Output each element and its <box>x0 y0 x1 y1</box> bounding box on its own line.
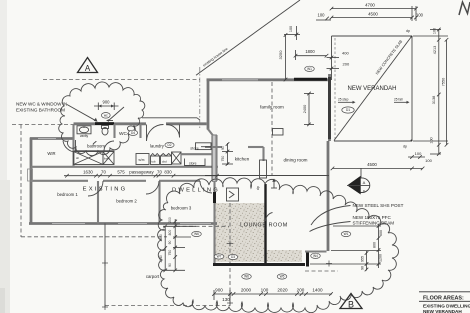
dash-dot old wall line vertical <box>199 67 201 128</box>
dim 900 bathroom <box>94 105 119 107</box>
bedroom3 door arc <box>146 181 159 194</box>
family/dining divider <box>205 146 222 148</box>
bedroom2 door arc <box>88 181 103 196</box>
svg-text:1630: 1630 <box>83 169 93 174</box>
svg-text:W7: W7 <box>217 255 222 259</box>
scan edge artifacts <box>0 0 7 313</box>
bed3 chain inner <box>174 219 176 271</box>
svg-text:6: 6 <box>363 190 365 194</box>
dim 4500 top <box>331 17 412 19</box>
bay north wall <box>305 250 327 252</box>
dim 4700 <box>331 8 416 10</box>
svg-text:family room: family room <box>260 105 284 110</box>
svg-text:4213: 4213 <box>433 46 437 54</box>
svg-text:NEW VERANDAH: NEW VERANDAH <box>347 86 396 92</box>
wc east wall <box>139 124 141 138</box>
east wall upper <box>328 74 331 141</box>
svg-text:100: 100 <box>318 13 326 18</box>
passage south wall <box>31 180 88 182</box>
svg-text:400: 400 <box>342 51 349 56</box>
bottom dim chain <box>214 293 332 295</box>
revision cloud large <box>158 178 399 313</box>
D3 tag <box>228 254 238 259</box>
svg-text:200: 200 <box>168 217 172 223</box>
svg-text:WIR: WIR <box>47 151 55 156</box>
svg-text:EXISTING BATHROOM: EXISTING BATHROOM <box>16 108 65 113</box>
W7 tag <box>214 254 224 259</box>
dashed eave line north <box>43 79 200 81</box>
dashed carport east line <box>229 203 231 305</box>
section marker A/6 <box>360 168 362 177</box>
svg-text:W1: W1 <box>344 232 349 236</box>
svg-text:D1: D1 <box>346 108 350 112</box>
vanity <box>77 126 91 134</box>
step arrow dining <box>273 180 275 189</box>
west wing north wall <box>30 137 74 140</box>
svg-text:70: 70 <box>101 169 106 174</box>
verandah top edge <box>332 35 413 37</box>
bay window bar <box>306 253 309 267</box>
verandah bottom edge <box>334 140 412 142</box>
old wall line horizontal <box>142 117 197 119</box>
wm box <box>136 154 149 165</box>
svg-text:4500: 4500 <box>368 12 378 17</box>
right dim extensions <box>413 35 448 37</box>
svg-text:bedroom 3: bedroom 3 <box>171 206 192 211</box>
D1 oval <box>342 107 354 113</box>
svg-text:90: 90 <box>221 146 225 150</box>
svg-text:laundry: laundry <box>150 144 165 149</box>
svg-text:25 step: 25 step <box>338 97 349 101</box>
svg-text:W5: W5 <box>280 275 285 279</box>
svg-text:W4: W4 <box>313 254 318 258</box>
wir pier bump <box>28 169 33 181</box>
kitchen counter <box>260 160 267 178</box>
cbd box <box>161 156 172 165</box>
svg-text:kitchen: kitchen <box>235 157 250 162</box>
lounge south wall bold <box>213 263 305 266</box>
store leader <box>201 146 211 148</box>
dashed eave stub nw <box>12 124 74 126</box>
svg-text:store: store <box>190 146 198 150</box>
passage dim chain <box>64 175 218 177</box>
svg-text:EXISTING: EXISTING <box>83 187 128 193</box>
svg-text:store: store <box>189 161 197 165</box>
triangle A marker <box>78 58 98 73</box>
east chain 955/90 <box>366 251 368 271</box>
bedroom2/3 wall <box>158 181 160 224</box>
store door arc <box>167 125 180 138</box>
svg-text:w/m: w/m <box>139 158 145 162</box>
triangle B marker <box>340 294 362 309</box>
W5 tag south <box>277 274 287 279</box>
svg-text:D2: D2 <box>167 143 171 147</box>
svg-text:A: A <box>85 64 91 73</box>
post cross se <box>326 263 332 265</box>
right dim outer 7550 <box>446 40 448 145</box>
W4 tag <box>311 253 321 258</box>
bathroom west wall <box>72 124 74 167</box>
verandah left dashed <box>334 38 336 139</box>
W1 oval <box>305 66 315 71</box>
verandah slab diagonal <box>334 37 412 141</box>
svg-text:2400: 2400 <box>303 105 307 113</box>
dashed ridge line family room <box>271 82 273 175</box>
svg-text:100: 100 <box>415 151 422 156</box>
svg-text:130: 130 <box>222 297 230 302</box>
svg-text:carport: carport <box>146 274 160 279</box>
laundry door arc <box>147 124 164 141</box>
svg-text:A: A <box>363 180 366 185</box>
north symbol <box>459 2 470 15</box>
svg-text:100: 100 <box>425 158 432 163</box>
svg-text:NEW WC & WINDOW IN: NEW WC & WINDOW IN <box>16 102 67 107</box>
family room hearth <box>273 129 284 136</box>
svg-text:FLOOR AREAS:: FLOOR AREAS: <box>423 296 464 302</box>
svg-text:1400: 1400 <box>312 288 323 293</box>
svg-text:4700: 4700 <box>365 3 375 8</box>
svg-text:100: 100 <box>289 26 293 32</box>
svg-text:D3: D3 <box>231 255 235 259</box>
dashed eave boundary south <box>21 236 167 238</box>
dim 1800 <box>296 55 327 57</box>
bathroom south wall <box>74 150 115 152</box>
svg-text:W6: W6 <box>194 232 199 236</box>
svg-text:600: 600 <box>379 230 383 236</box>
W6 tag south <box>242 274 252 279</box>
svg-text:bathroom: bathroom <box>87 144 105 149</box>
svg-text:1200: 1200 <box>379 254 383 262</box>
svg-text:sh: sh <box>76 156 80 160</box>
new wc window black bar <box>95 122 114 125</box>
svg-text:vanity: vanity <box>80 134 89 138</box>
wc oval tag <box>101 113 110 119</box>
svg-text:dp: dp <box>406 29 410 33</box>
svg-text:LOUNGE ROOM: LOUNGE ROOM <box>240 223 288 229</box>
svg-text:100: 100 <box>433 28 437 34</box>
wc pan 2 in wc room <box>127 126 134 131</box>
east wall dark opening bar <box>328 77 331 139</box>
W1 oval lounge <box>341 231 351 236</box>
svg-text:cbd: cbd <box>162 160 167 164</box>
bedrooms south wall <box>29 222 217 225</box>
bed3 chain extensions <box>163 225 196 227</box>
west wall <box>30 138 33 225</box>
W6 bed3 tag <box>192 231 202 236</box>
dashed carport beam line <box>176 225 229 227</box>
svg-text:W6: W6 <box>244 275 249 279</box>
east chain 600/800/1200 <box>378 224 380 268</box>
svg-text:200: 200 <box>297 288 305 293</box>
svg-text:800: 800 <box>373 242 377 248</box>
svg-text:B: B <box>348 300 354 310</box>
store box <box>185 159 206 166</box>
jog wall diagonal <box>208 129 214 136</box>
bathroom north wall <box>74 122 96 125</box>
svg-text:dining room: dining room <box>283 158 307 163</box>
family room west wall <box>207 81 210 130</box>
lounge north line <box>205 175 329 177</box>
svg-text:800: 800 <box>168 230 172 236</box>
svg-text:2000: 2000 <box>241 288 252 293</box>
svg-text:100: 100 <box>261 288 269 293</box>
svg-text:linen: linen <box>104 157 110 161</box>
kitchen counter2 <box>227 188 239 201</box>
dashed carport south line <box>105 305 230 307</box>
east wall lower <box>327 141 330 251</box>
lounge new east wall bold <box>264 184 266 263</box>
existing house line diagonal <box>196 0 300 75</box>
svg-text:NEW STEEL SHS POST: NEW STEEL SHS POST <box>353 203 404 208</box>
svg-text:tub: tub <box>152 160 156 164</box>
dim 4500 mid <box>333 167 423 169</box>
svg-text:wc: wc <box>104 114 108 118</box>
svg-text:bedroom 1: bedroom 1 <box>57 192 78 197</box>
new window black bar north <box>294 78 327 81</box>
dashed eave boundary west <box>20 125 22 238</box>
kitchen/dining divider <box>262 147 264 161</box>
carport west post line <box>104 224 106 308</box>
svg-text:900: 900 <box>103 100 111 105</box>
leader to window <box>67 105 96 121</box>
hw box <box>172 152 182 164</box>
east chain extensions <box>331 250 381 252</box>
svg-text:2020: 2020 <box>277 288 288 293</box>
passage north wall <box>31 166 218 168</box>
svg-text:830: 830 <box>164 169 172 174</box>
stipple strip south bay <box>265 250 302 262</box>
svg-text:955: 955 <box>361 256 365 262</box>
wc pan <box>102 126 109 129</box>
svg-text:3250: 3250 <box>278 50 283 60</box>
dim 100 small <box>284 34 300 36</box>
wir door arc <box>63 140 76 152</box>
dim 100 below dp <box>408 156 425 158</box>
svg-text:900: 900 <box>215 288 223 293</box>
bathroom door arc <box>104 141 114 151</box>
svg-text:1800: 1800 <box>305 49 315 54</box>
svg-text:D4: D4 <box>131 131 135 135</box>
svg-text:4500: 4500 <box>367 162 377 167</box>
svg-text:passageway: passageway <box>129 169 154 174</box>
bath box <box>74 152 104 165</box>
tub box <box>151 156 160 165</box>
svg-text:90: 90 <box>168 241 172 245</box>
svg-text:90: 90 <box>361 266 365 270</box>
store divider wall <box>181 153 212 155</box>
bedroom1/2 wall <box>97 181 99 224</box>
kitchen small dims <box>227 143 229 165</box>
svg-text:3138: 3138 <box>432 96 436 104</box>
verandah ne connector <box>331 36 333 80</box>
svg-text:NEW VERANDAH: NEW VERANDAH <box>423 309 462 313</box>
new slab stipple lounge <box>214 203 266 262</box>
svg-text:EXISTING DWELLING: EXISTING DWELLING <box>423 303 470 308</box>
lounge west new window bar <box>213 192 216 203</box>
kitchen door arc <box>200 181 212 193</box>
svg-text:90: 90 <box>168 263 172 267</box>
bed3 chain outer <box>164 226 166 270</box>
svg-text:750: 750 <box>168 250 172 256</box>
svg-text:200: 200 <box>343 62 350 67</box>
dim 2400 family room <box>308 94 310 125</box>
svg-text:750: 750 <box>221 156 225 162</box>
svg-text:7550: 7550 <box>442 78 446 86</box>
verandah right edge <box>411 36 413 141</box>
dim 3250 <box>285 35 287 80</box>
kitchen west cavity wall <box>212 136 217 182</box>
dashed eave line southeast <box>305 270 338 272</box>
svg-text:70: 70 <box>157 169 162 174</box>
title block floor areas <box>419 291 470 293</box>
right dim inner chain <box>438 30 440 155</box>
lounge west wall <box>213 181 215 263</box>
svg-text:WC: WC <box>119 131 128 137</box>
svg-text:100: 100 <box>430 137 434 143</box>
svg-text:dp: dp <box>256 186 260 190</box>
lounge door arc on bold wall <box>266 213 273 222</box>
wc partition wall <box>113 124 115 138</box>
svg-text:25 fall: 25 fall <box>394 97 403 101</box>
svg-text:W1: W1 <box>307 67 312 71</box>
svg-text:575: 575 <box>117 169 125 174</box>
svg-text:dp: dp <box>403 145 407 149</box>
small arrow below <box>107 120 113 122</box>
family room north wall <box>207 78 332 81</box>
linen box <box>103 152 114 165</box>
svg-text:bedroom 2: bedroom 2 <box>116 199 137 204</box>
store shelves kitchen <box>196 143 212 150</box>
revision cloud bathroom <box>59 82 145 156</box>
